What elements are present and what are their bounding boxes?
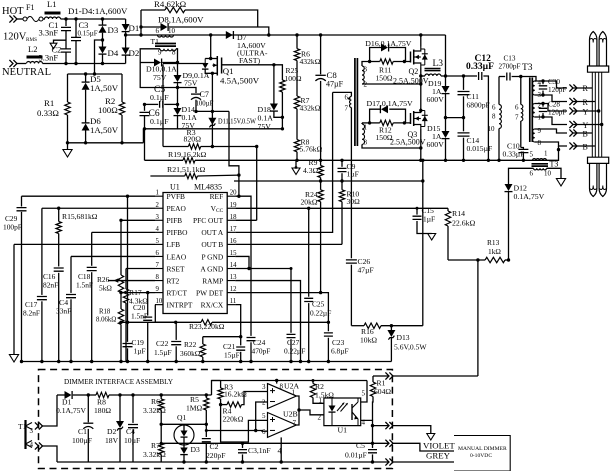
lamp bottom base	[588, 157, 609, 163]
svg-text:18V: 18V	[105, 436, 119, 445]
capacitor C19	[123, 196, 146, 361]
svg-text:5.6V,0.5W: 5.6V,0.5W	[394, 343, 427, 352]
transformer T2 primary	[333, 92, 352, 112]
svg-text:120V: 120V	[3, 32, 27, 43]
node	[194, 110, 197, 113]
capacitor C14	[458, 118, 493, 161]
resistor R16	[360, 323, 423, 345]
svg-text:D1: D1	[129, 23, 140, 33]
junction	[307, 360, 310, 363]
text GREY	[426, 451, 451, 461]
wire violet row	[161, 442, 388, 444]
svg-text:7: 7	[293, 419, 297, 427]
diode D1 dimmer	[56, 391, 88, 415]
resistor R7	[294, 96, 320, 140]
transistor Q2	[393, 35, 429, 111]
junction	[175, 360, 178, 363]
node	[319, 159, 322, 183]
junction	[249, 360, 252, 363]
svg-text:3: 3	[30, 427, 34, 435]
node	[176, 61, 179, 64]
capacitor C2	[39, 45, 72, 64]
transistor Q1 dimmer	[174, 413, 194, 448]
svg-text:1: 1	[156, 190, 159, 197]
resistor R18	[96, 293, 124, 362]
wire pin16 OUT B	[235, 243, 342, 245]
svg-text:D1-D4:1A,600V: D1-D4:1A,600V	[68, 6, 128, 16]
node	[371, 442, 374, 464]
wire lead Y1	[535, 104, 567, 112]
wire lead R2	[535, 95, 567, 102]
connector lamp B2	[569, 142, 595, 151]
svg-text:0.22µF: 0.22µF	[310, 309, 331, 318]
resistor R1	[37, 74, 70, 143]
svg-text:0.22µF: 0.22µF	[284, 347, 305, 356]
node	[462, 74, 465, 119]
svg-text:3.32kΩ: 3.32kΩ	[143, 450, 166, 459]
resistor R6	[294, 35, 320, 96]
connector out top	[373, 372, 478, 379]
wire pin3 row	[121, 219, 155, 221]
resistor R11	[370, 59, 411, 83]
wire Q1 drain	[210, 35, 212, 59]
node	[126, 195, 129, 198]
node	[487, 159, 490, 162]
svg-text:6.8µF: 6.8µF	[331, 347, 349, 356]
svg-text:100pF: 100pF	[3, 223, 22, 232]
svg-text:D11,15V,0.5W: D11,15V,0.5W	[218, 117, 256, 126]
svg-text:1A,50V: 1A,50V	[90, 83, 119, 93]
svg-text:8: 8	[538, 139, 542, 147]
svg-text:100Ω: 100Ω	[98, 105, 118, 115]
IC U1 left pins	[155, 190, 193, 310]
node	[476, 258, 510, 261]
svg-text:5: 5	[156, 238, 160, 245]
wire	[445, 35, 447, 86]
wire pin8 row wiper	[108, 280, 155, 282]
svg-text:2.5A,500V: 2.5A,500V	[390, 138, 426, 147]
capacitor C17	[23, 208, 47, 361]
resistor R22	[180, 337, 206, 362]
wire to C6 leg	[142, 129, 144, 143]
wire pin13 RAMP	[235, 281, 300, 362]
optocoupler U1 box	[318, 390, 366, 435]
node	[211, 110, 214, 148]
svg-text:47µF: 47µF	[326, 80, 344, 89]
transformer T2 core	[355, 58, 358, 146]
svg-text:5kΩ: 5kΩ	[99, 284, 112, 293]
diode D4	[99, 40, 119, 64]
wire	[441, 75, 464, 77]
svg-text:8: 8	[280, 383, 284, 391]
resistor R25	[274, 65, 302, 118]
capacitor C30	[539, 78, 567, 97]
text ML4835	[194, 183, 222, 192]
wire vcc rail 2	[234, 180, 423, 182]
junction	[239, 360, 242, 363]
wire halfbridge mid	[421, 75, 425, 77]
wire pin1 row	[22, 195, 156, 197]
svg-text:L3: L3	[433, 59, 444, 69]
optocoupler transistor	[352, 398, 358, 426]
svg-text:VIOLET: VIOLET	[423, 441, 455, 451]
svg-text:6: 6	[262, 428, 266, 436]
svg-text:9: 9	[538, 127, 542, 135]
svg-text:0.33µF: 0.33µF	[466, 62, 494, 72]
svg-text:PFC OUT: PFC OUT	[193, 216, 224, 225]
capacitor C20	[131, 293, 152, 362]
wire pin18 PFC OUT	[235, 219, 257, 221]
svg-text:R7: R7	[151, 441, 160, 450]
resistor R7 dimmer	[143, 441, 166, 462]
wire right bus	[421, 159, 424, 326]
svg-text:U1: U1	[170, 183, 180, 192]
svg-text:RSET: RSET	[167, 264, 186, 273]
wire	[162, 64, 164, 146]
node	[419, 33, 422, 36]
transformer T3 winding 4-3	[532, 79, 541, 99]
svg-text:MANUAL DIMMER: MANUAL DIMMER	[458, 446, 507, 452]
capacitor C25	[304, 207, 331, 362]
svg-text:75V: 75V	[153, 73, 167, 82]
svg-text:0.1A,75V: 0.1A,75V	[514, 192, 545, 201]
svg-text:3.3nF: 3.3nF	[39, 52, 59, 62]
svg-text:4.5A,500V: 4.5A,500V	[220, 76, 260, 86]
resistor R14	[445, 208, 475, 260]
connector lamp Y2	[569, 121, 603, 130]
svg-text:15µF: 15µF	[224, 351, 240, 360]
ground	[50, 43, 57, 49]
node	[497, 159, 500, 162]
wire opto e out	[361, 420, 388, 425]
svg-text:C7: C7	[200, 90, 209, 99]
svg-text:B: B	[583, 143, 588, 152]
wire Q1 gate row	[161, 423, 184, 425]
node	[119, 321, 122, 324]
node	[340, 159, 343, 183]
svg-text:C28: C28	[548, 101, 560, 109]
wire ground rail	[22, 361, 392, 363]
wire fb loop	[221, 405, 268, 442]
diode D10	[140, 59, 177, 83]
node	[444, 159, 447, 162]
svg-text:10kΩ: 10kΩ	[360, 336, 377, 345]
wire pin12 PW DET	[235, 291, 328, 331]
wire Vcc row	[235, 207, 448, 209]
wire T2 primary to C26	[350, 108, 352, 231]
zener D13	[387, 326, 427, 362]
svg-text:9: 9	[156, 286, 160, 293]
potentiometer R26	[97, 275, 124, 293]
svg-text:2.5A,500V: 2.5A,500V	[393, 77, 429, 86]
svg-text:4: 4	[362, 419, 366, 427]
svg-text:0.1µF: 0.1µF	[150, 93, 169, 102]
resistor R4 dimmer	[221, 392, 268, 424]
capacitor C4	[56, 256, 76, 361]
svg-text:1.5nF: 1.5nF	[131, 312, 148, 321]
diode D9	[174, 63, 210, 88]
svg-text:75V: 75V	[184, 79, 198, 88]
node	[66, 141, 124, 144]
svg-text:LFB: LFB	[167, 240, 181, 249]
svg-text:3.3nF: 3.3nF	[39, 28, 59, 38]
capacitor C18	[76, 232, 97, 361]
svg-text:F1: F1	[26, 3, 34, 12]
wire	[43, 63, 126, 65]
svg-text:5: 5	[362, 390, 366, 398]
svg-text:1: 1	[319, 397, 323, 405]
diode D7	[226, 31, 268, 65]
wire B2 to T3b	[547, 146, 561, 160]
transformer T2 secondary B	[362, 123, 421, 148]
svg-text:GREY: GREY	[426, 451, 451, 461]
svg-text:1MΩ: 1MΩ	[186, 404, 203, 413]
capacitor C3 dimmer	[238, 442, 271, 464]
capacitor C23	[324, 333, 349, 362]
node	[205, 429, 208, 464]
capacitor C28	[539, 101, 567, 119]
resistor R23	[121, 320, 328, 331]
wire	[446, 117, 464, 119]
resistor R2 dimmer	[310, 380, 334, 403]
wire bottom power rail	[145, 129, 547, 163]
svg-text:0.1A,75V: 0.1A,75V	[56, 406, 86, 415]
svg-text:NEUTRAL: NEUTRAL	[2, 67, 51, 78]
junction	[119, 360, 122, 363]
svg-text:PVFB: PVFB	[167, 192, 186, 201]
svg-text:6: 6	[156, 250, 160, 257]
transformer T1 core	[155, 44, 176, 47]
capacitor C12	[464, 54, 495, 159]
wire T2 primary to OUT A	[332, 92, 334, 233]
wire	[140, 63, 177, 88]
wire to opto LED	[299, 410, 324, 415]
node	[74, 17, 77, 65]
svg-text:3: 3	[156, 214, 160, 221]
junction	[146, 360, 149, 363]
svg-text:82nF: 82nF	[43, 281, 58, 290]
resistor R3 dimmer	[218, 381, 247, 405]
svg-text:6: 6	[156, 27, 160, 35]
wire U2A pwr	[276, 381, 278, 384]
svg-text:820Ω: 820Ω	[184, 135, 202, 144]
inductor L2	[27, 44, 43, 64]
wire vcc rail	[145, 128, 283, 130]
svg-text:A GND: A GND	[200, 264, 223, 273]
node	[160, 423, 163, 426]
connector J1 hot	[9, 15, 17, 22]
IC U1 ML4835 body	[163, 193, 227, 314]
svg-text:D2: D2	[129, 48, 140, 58]
wire boost rail	[126, 34, 446, 36]
diode D8	[141, 10, 269, 35]
resistor R2	[98, 74, 125, 143]
svg-text:604Ω: 604Ω	[374, 387, 391, 396]
node	[239, 335, 242, 338]
optocoupler LED	[329, 398, 349, 426]
resistor R10	[339, 181, 360, 244]
wire	[120, 220, 122, 275]
resistor R21	[150, 165, 239, 179]
svg-text:19: 19	[230, 202, 237, 209]
connector T1	[18, 420, 34, 449]
node	[174, 321, 330, 324]
text DIMMER INTERFACE ASSEMBLY	[64, 377, 173, 386]
lamp wires	[592, 72, 601, 157]
resistor R19	[168, 150, 206, 159]
svg-text:LEAO: LEAO	[167, 252, 187, 261]
ground	[292, 160, 300, 174]
wire pin4 row	[92, 231, 155, 233]
wire Q1 source	[209, 57, 214, 147]
diode D1	[122, 19, 140, 35]
svg-text:1.5nF: 1.5nF	[76, 281, 93, 290]
svg-text:C30: C30	[548, 78, 560, 86]
junction	[126, 360, 129, 363]
svg-text:P GND: P GND	[201, 252, 223, 261]
svg-text:C1: C1	[78, 427, 87, 436]
node	[390, 324, 393, 327]
ground far left	[9, 244, 18, 362]
svg-text:8: 8	[156, 274, 160, 281]
wire pin10 jog	[155, 305, 176, 323]
svg-text:R4,62kΩ: R4,62kΩ	[154, 0, 187, 9]
resistor R15	[56, 208, 98, 266]
capacitor C1 dimmer	[72, 395, 93, 462]
node	[64, 62, 67, 65]
diode D17	[367, 99, 413, 125]
capacitor C16	[43, 268, 64, 362]
node	[281, 116, 284, 119]
svg-text:C22: C22	[156, 339, 169, 348]
connector out 4	[385, 458, 454, 465]
text D1-D4 rating	[68, 6, 128, 16]
wire lead R1	[535, 81, 567, 88]
wire	[43, 18, 45, 20]
node	[255, 145, 258, 148]
wire R16 row	[351, 325, 364, 327]
node	[119, 291, 122, 294]
wire U2A inv	[254, 402, 268, 432]
capacitor C4 dimmer	[124, 395, 140, 462]
svg-text:120pF: 120pF	[548, 109, 566, 117]
wire T3b-6 to D12	[509, 168, 534, 184]
junction	[69, 360, 72, 363]
resistor R8 dimmer	[88, 392, 211, 415]
node	[119, 219, 122, 222]
node	[139, 25, 270, 36]
connector lamp B1	[569, 129, 592, 138]
node	[419, 82, 422, 85]
svg-text:7: 7	[156, 262, 160, 269]
node	[444, 74, 447, 77]
node	[143, 103, 179, 106]
svg-text:1.5µF: 1.5µF	[154, 348, 172, 357]
zener D2 dimmer	[105, 395, 124, 462]
node	[522, 159, 525, 162]
svg-text:D17,0.1A,75V: D17,0.1A,75V	[367, 99, 413, 108]
transformer T3b winding 5-1	[530, 150, 549, 161]
svg-text:360kΩ: 360kΩ	[180, 349, 201, 358]
transformer T3 winding 6-7	[515, 77, 523, 148]
capacitor C13	[499, 55, 537, 82]
svg-text:0.15µF: 0.15µF	[78, 29, 98, 37]
wire REF riser	[229, 111, 241, 197]
capacitor C10	[503, 142, 529, 161]
svg-text:Y: Y	[583, 108, 589, 117]
diode D6	[82, 116, 119, 143]
node	[209, 33, 212, 36]
wire gate row	[163, 63, 205, 65]
wire feedback to dimmer	[477, 260, 479, 376]
svg-text:5.76kΩ: 5.76kΩ	[300, 145, 323, 154]
wire	[43, 446, 58, 462]
wire pins15+14 gnd	[235, 256, 291, 270]
svg-text:RMS: RMS	[26, 37, 37, 43]
transformer T3 core	[530, 78, 533, 143]
text U1	[170, 183, 180, 192]
svg-text:5: 5	[262, 412, 266, 420]
junction	[40, 360, 43, 363]
svg-text:8: 8	[492, 113, 496, 121]
IC U1 right pins	[193, 190, 237, 310]
node	[146, 291, 149, 294]
connector lamp R1	[569, 84, 592, 93]
svg-text:100µF: 100µF	[196, 101, 214, 108]
node	[101, 38, 104, 65]
resistor R17	[123, 269, 148, 362]
svg-text:7: 7	[515, 114, 519, 122]
transformer T1 primary	[151, 27, 176, 46]
capacitor C21	[223, 337, 245, 362]
svg-text:4: 4	[30, 441, 34, 449]
transistor Q3	[390, 108, 428, 160]
node	[462, 159, 465, 162]
svg-text:20kΩ: 20kΩ	[301, 198, 318, 207]
node	[281, 127, 284, 130]
junction	[57, 360, 60, 363]
svg-text:RT/CT: RT/CT	[167, 288, 188, 297]
node	[295, 159, 298, 162]
node	[519, 75, 522, 78]
wire gate row right	[222, 64, 274, 66]
svg-text:REF: REF	[210, 192, 224, 201]
diode D15	[427, 124, 450, 160]
lamp bottom tubes	[590, 163, 607, 196]
svg-text:R6: R6	[151, 397, 160, 406]
svg-text:R14: R14	[452, 209, 465, 218]
svg-text:R19,16.2kΩ: R19,16.2kΩ	[168, 150, 206, 159]
node	[124, 33, 127, 36]
zener D11	[208, 117, 256, 128]
node	[205, 423, 208, 426]
wire	[68, 142, 144, 144]
svg-text:432kΩ: 432kΩ	[300, 104, 321, 113]
svg-text:1: 1	[292, 389, 296, 397]
svg-text:C3,1nF: C3,1nF	[248, 446, 271, 455]
svg-text:150Ω: 150Ω	[376, 74, 393, 83]
node	[275, 379, 315, 382]
svg-text:HOT: HOT	[2, 6, 24, 17]
svg-text:0.33µF: 0.33µF	[503, 150, 525, 159]
node	[87, 393, 90, 396]
node	[160, 442, 163, 445]
wire	[17, 18, 23, 20]
node	[272, 63, 275, 66]
connector out 3	[385, 440, 454, 451]
svg-text:4.3Ω: 4.3Ω	[303, 166, 318, 175]
wire lead B1	[535, 129, 567, 133]
